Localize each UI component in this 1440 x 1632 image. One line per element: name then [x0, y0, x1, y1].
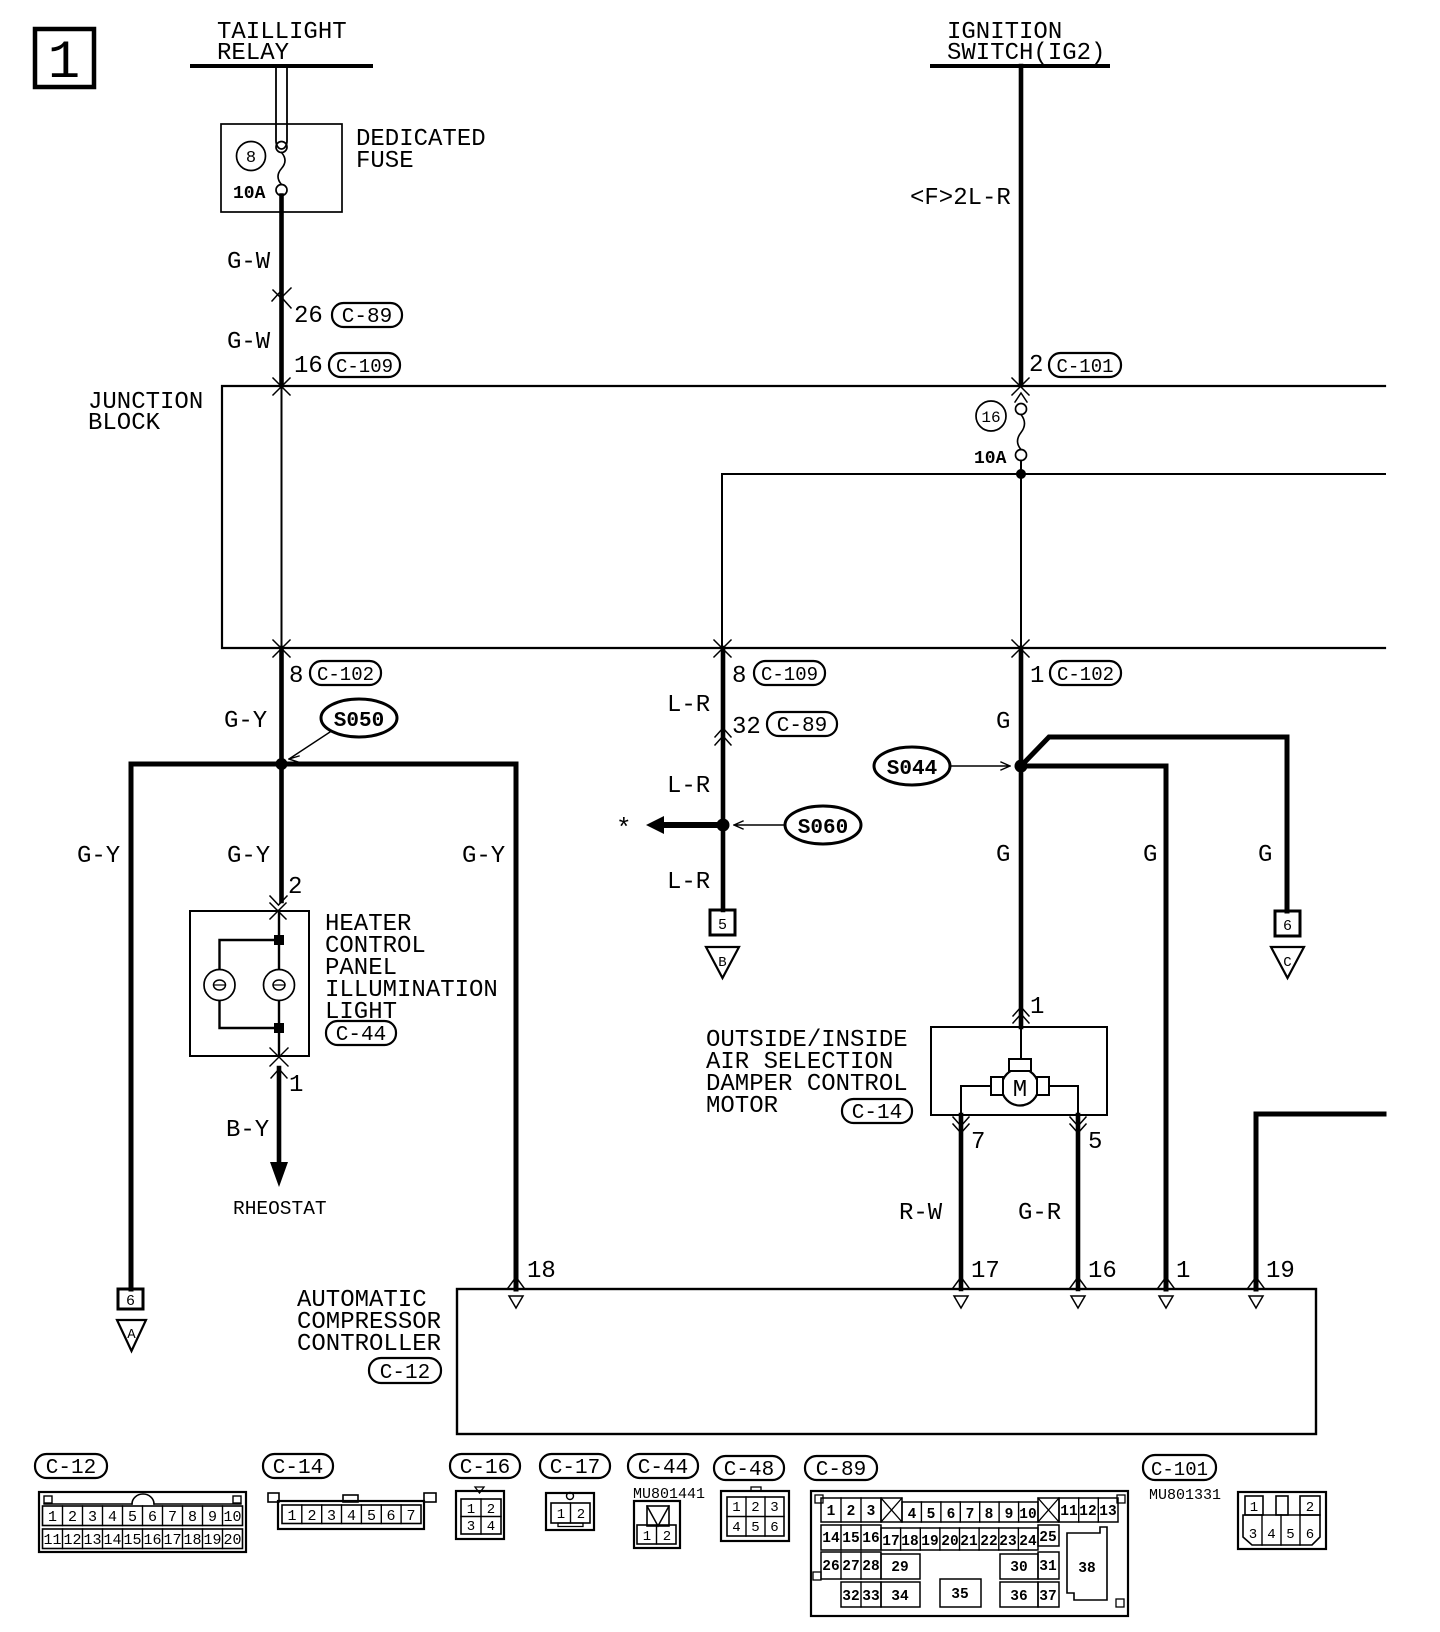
wire G: branch down to damper motor: [1019, 766, 1024, 1027]
svg-text:L-R: L-R: [667, 692, 710, 719]
capsule label C-48: [714, 1456, 784, 1480]
internal wire heater panel: [278, 911, 280, 1056]
svg-text:C-89: C-89: [342, 306, 392, 329]
svg-text:C-89: C-89: [816, 1459, 866, 1482]
crossing mark motor pin 5: [1070, 1117, 1086, 1133]
svg-text:4: 4: [732, 1520, 740, 1536]
svg-text:C: C: [1283, 955, 1291, 971]
svg-text:4: 4: [487, 1519, 495, 1535]
svg-text:22: 22: [980, 1534, 997, 1550]
svg-text:2: 2: [1306, 1500, 1314, 1516]
svg-text:CONTROLLER: CONTROLLER: [297, 1331, 441, 1358]
svg-text:17: 17: [163, 1532, 181, 1549]
svg-text:C-109: C-109: [761, 664, 818, 686]
svg-text:23: 23: [999, 1534, 1016, 1550]
wire: thick stub arrow to asterisk: [663, 822, 723, 828]
svg-text:4: 4: [347, 1508, 356, 1525]
terminal box 6 (branch C): [1275, 911, 1300, 936]
svg-text:2: 2: [307, 1508, 316, 1525]
svg-text:19: 19: [1266, 1258, 1295, 1285]
svg-text:G-Y: G-Y: [224, 708, 267, 735]
taillight relay bus bar: [192, 64, 371, 68]
svg-text:G-Y: G-Y: [462, 843, 505, 870]
capsule C-101 (top): [1049, 353, 1121, 377]
crossing mark into heater panel pin 2: [270, 896, 287, 919]
splice S060 oval: [785, 806, 861, 844]
controller entry mark pin 1: [1158, 1277, 1174, 1288]
leader arrow S050 to node: [289, 732, 330, 762]
svg-text:C-17: C-17: [550, 1457, 600, 1480]
svg-text:33: 33: [862, 1589, 879, 1605]
svg-text:25: 25: [1039, 1530, 1056, 1546]
svg-text:G-R: G-R: [1018, 1200, 1061, 1227]
node S050 junction dot: [276, 758, 288, 770]
svg-text:6: 6: [770, 1520, 778, 1536]
connector crossing 32 C-89: [715, 728, 731, 745]
connector C-17 drawing: [546, 1493, 594, 1530]
arrowhead to rheostat: [270, 1162, 288, 1187]
svg-text:1: 1: [287, 1508, 296, 1525]
connector C-89 cell 38: [1067, 1527, 1107, 1600]
node: bulb bracket bottom: [274, 1023, 284, 1033]
svg-text:S050: S050: [334, 710, 384, 733]
svg-text:MOTOR: MOTOR: [706, 1093, 778, 1120]
wire L-R: S060 to terminal 5: [721, 825, 726, 910]
svg-text:M: M: [1013, 1077, 1027, 1104]
crossing mark motor pin 7: [953, 1117, 969, 1133]
svg-text:16: 16: [294, 353, 323, 380]
svg-text:C-101: C-101: [1056, 356, 1113, 378]
svg-text:17: 17: [971, 1258, 1000, 1285]
junction block internal bus from fuse 16: [722, 474, 1385, 648]
wire G-Y: junction block to node S050: [279, 648, 284, 764]
svg-text:29: 29: [891, 1560, 908, 1576]
svg-text:2: 2: [68, 1509, 77, 1526]
junction block internal wire (left, G-W feed): [281, 386, 283, 648]
svg-text:31: 31: [1039, 1559, 1057, 1575]
svg-text:2: 2: [663, 1529, 671, 1545]
fuse 16 number circle: [976, 401, 1006, 431]
node: bulb bracket top: [274, 935, 284, 945]
wire G-Y right branch down: [514, 764, 519, 1289]
splice S044 oval: [874, 747, 950, 785]
svg-text:2: 2: [487, 1502, 495, 1518]
svg-text:7: 7: [966, 1507, 975, 1523]
svg-text:28: 28: [862, 1559, 879, 1575]
svg-text:C-48: C-48: [724, 1459, 774, 1482]
wire B-Y to rheostat: [277, 1068, 282, 1165]
svg-text:3: 3: [770, 1500, 778, 1516]
svg-text:S044: S044: [887, 758, 937, 781]
capsule label C-12 (connector row): [35, 1454, 107, 1478]
svg-text:B-Y: B-Y: [226, 1117, 269, 1144]
capsule label C-16: [450, 1454, 520, 1478]
svg-text:36: 36: [1010, 1589, 1027, 1605]
connector C-101 drawing: [1238, 1492, 1326, 1549]
svg-text:C-14: C-14: [273, 1457, 323, 1480]
svg-text:SWITCH(IG2): SWITCH(IG2): [947, 40, 1105, 67]
svg-text:2: 2: [577, 1507, 585, 1523]
svg-text:C-102: C-102: [1057, 664, 1114, 686]
controller entry mark pin 17: [953, 1277, 969, 1288]
svg-text:34: 34: [891, 1589, 909, 1605]
motor wire to pin 5: [1049, 1086, 1078, 1115]
svg-text:C-16: C-16: [460, 1457, 510, 1480]
svg-text:26: 26: [294, 303, 323, 330]
svg-text:1: 1: [643, 1529, 651, 1545]
crossing mark out of heater panel pin 1: [270, 1048, 288, 1078]
svg-text:1: 1: [827, 1504, 836, 1520]
ignition switch bus bar: [932, 64, 1108, 68]
svg-text:1: 1: [1250, 1500, 1258, 1516]
wire G-Y left branch down: [129, 764, 134, 1289]
controller entry mark pin 18: [508, 1277, 524, 1288]
svg-text:13: 13: [83, 1532, 101, 1549]
controller entry mark pin 19: [1248, 1277, 1264, 1288]
svg-text:5: 5: [718, 917, 727, 934]
svg-text:L-R: L-R: [667, 869, 710, 896]
svg-text:11: 11: [1060, 1504, 1078, 1520]
ground triangle C: [1271, 947, 1304, 978]
svg-text:FUSE: FUSE: [356, 148, 414, 175]
wire G-W: fuse to junction block: [279, 196, 284, 386]
svg-text:17: 17: [882, 1534, 899, 1550]
svg-text:6: 6: [1306, 1527, 1314, 1543]
svg-text:6: 6: [386, 1508, 395, 1525]
svg-text:G-Y: G-Y: [77, 843, 120, 870]
svg-text:5: 5: [1088, 1129, 1102, 1156]
fuse 16 element: [1016, 404, 1027, 415]
bulb 1 (left): [204, 970, 235, 1001]
ground triangle A: [117, 1320, 146, 1351]
svg-text:1: 1: [48, 1509, 57, 1526]
splice S050 oval: [321, 699, 397, 737]
crossing mark at junction block top (right wire): [1012, 378, 1029, 395]
svg-text:18: 18: [901, 1534, 918, 1550]
svg-text:19: 19: [203, 1532, 221, 1549]
connector C-16 drawing: [456, 1491, 504, 1539]
svg-text:9: 9: [1005, 1507, 1014, 1523]
connector C-89 pin grid row 4: [841, 1582, 881, 1607]
svg-text:16: 16: [143, 1532, 161, 1549]
svg-text:1: 1: [557, 1507, 565, 1523]
wire: G-Y distribution bus: [131, 762, 516, 767]
svg-text:*: *: [616, 814, 632, 844]
svg-text:10A: 10A: [974, 449, 1007, 469]
svg-text:G: G: [1143, 842, 1157, 869]
svg-text:16: 16: [1088, 1258, 1117, 1285]
svg-text:16: 16: [981, 409, 1000, 427]
svg-text:B: B: [718, 955, 726, 971]
svg-text:7: 7: [971, 1129, 985, 1156]
svg-text:14: 14: [103, 1532, 121, 1549]
svg-text:L-R: L-R: [667, 773, 710, 800]
svg-text:10A: 10A: [233, 184, 266, 204]
svg-text:8: 8: [732, 663, 746, 690]
svg-text:6: 6: [947, 1507, 956, 1523]
svg-text:3: 3: [327, 1508, 336, 1525]
svg-text:5: 5: [927, 1507, 936, 1523]
svg-text:8: 8: [289, 663, 303, 690]
capsule C-89 (middle): [767, 712, 837, 736]
connector C-12 drawing: [39, 1492, 246, 1552]
svg-text:G-W: G-W: [227, 249, 271, 276]
crossing mark into motor pin 1: [1013, 1007, 1029, 1023]
connector C-48 drawing: [721, 1491, 789, 1541]
svg-text:G-Y: G-Y: [227, 843, 270, 870]
svg-text:1: 1: [1176, 1258, 1190, 1285]
svg-text:8: 8: [246, 149, 256, 168]
svg-text:G: G: [996, 709, 1010, 736]
svg-text:C-102: C-102: [317, 664, 374, 686]
svg-text:C-14: C-14: [852, 1102, 902, 1125]
svg-text:1: 1: [1030, 994, 1044, 1021]
motor M symbol: [1020, 1027, 1022, 1060]
ground triangle B: [706, 947, 739, 978]
connector C-89 pin numbers: [822, 1504, 1116, 1605]
leader arrow S044 to node: [950, 762, 1010, 770]
svg-text:C-89: C-89: [777, 715, 827, 738]
capsule label C-17: [540, 1454, 610, 1478]
damper control motor box: [931, 1027, 1107, 1115]
wire 2L-R: ignition switch to junction block: [1019, 66, 1024, 385]
capsule label C-89 (connector row): [805, 1456, 877, 1480]
capsule C-102 (left): [310, 661, 381, 685]
svg-text:8: 8: [985, 1507, 994, 1523]
svg-text:21: 21: [960, 1534, 978, 1550]
svg-text:9: 9: [208, 1509, 217, 1526]
svg-text:BLOCK: BLOCK: [88, 410, 161, 437]
svg-text:6: 6: [148, 1509, 157, 1526]
svg-text:24: 24: [1019, 1534, 1037, 1550]
controller entry mark pin 16: [1070, 1277, 1086, 1288]
bulb 2 (right): [264, 970, 295, 1001]
wire R-W: motor to controller 17: [959, 1115, 964, 1289]
node: fuse 16 output on internal bus: [1016, 469, 1026, 479]
terminal box 6 (branch A): [118, 1289, 143, 1309]
svg-text:C-44: C-44: [336, 1024, 386, 1047]
svg-text:12: 12: [1079, 1504, 1096, 1520]
connector C-44 drawing: [634, 1501, 680, 1548]
svg-text:18: 18: [527, 1258, 556, 1285]
node S060 junction dot: [717, 819, 730, 832]
svg-text:11: 11: [43, 1532, 61, 1549]
svg-text:MU801331: MU801331: [1149, 1487, 1221, 1504]
svg-text:C-101: C-101: [1151, 1459, 1208, 1481]
leader arrow S060 to node: [734, 821, 785, 829]
crossing mark at junction block bottom (right wire): [1012, 640, 1029, 657]
svg-text:10: 10: [1019, 1507, 1036, 1523]
svg-text:15: 15: [842, 1531, 859, 1547]
svg-text:C-44: C-44: [638, 1457, 688, 1480]
svg-text:20: 20: [941, 1534, 958, 1550]
wire: far-right feed to controller 19: [1256, 1114, 1384, 1289]
svg-text:4: 4: [908, 1507, 917, 1523]
connector crossing mark 26 C-89: [272, 288, 291, 308]
capsule C-109 (bottom): [754, 661, 825, 685]
svg-text:4: 4: [108, 1509, 117, 1526]
svg-text:6: 6: [126, 1293, 135, 1310]
fuse element (dedicated fuse): [276, 142, 287, 153]
capsule C-12 (component): [369, 1358, 441, 1383]
capsule label C-14 (connector row): [263, 1454, 333, 1478]
svg-text:C-109: C-109: [336, 356, 393, 378]
connector C-89 pin grid row 1: [821, 1498, 881, 1522]
svg-text:35: 35: [951, 1587, 968, 1603]
svg-text:15: 15: [123, 1532, 141, 1549]
motor wire to pin 7: [961, 1086, 991, 1115]
svg-text:20: 20: [223, 1532, 241, 1549]
capsule label C-101 (connector row): [1143, 1455, 1216, 1480]
wire G-Y middle branch down: [279, 764, 284, 901]
wire G: branch to controller pin 1: [1021, 766, 1166, 1289]
svg-text:12: 12: [63, 1532, 81, 1549]
svg-text:C-12: C-12: [380, 1362, 430, 1385]
svg-text:2: 2: [847, 1504, 856, 1520]
node S044 junction dot: [1015, 760, 1028, 773]
wire G-R: motor to controller 16: [1076, 1115, 1081, 1289]
svg-text:7: 7: [168, 1509, 177, 1526]
bulb parallel bracket: [220, 940, 280, 1028]
svg-text:<F>2L-R: <F>2L-R: [910, 185, 1011, 212]
svg-text:37: 37: [1039, 1589, 1056, 1605]
svg-text:C-12: C-12: [46, 1457, 96, 1480]
connector C-89 pin grid row 2: [821, 1525, 881, 1550]
svg-text:10: 10: [223, 1509, 241, 1526]
svg-text:7: 7: [406, 1508, 415, 1525]
capsule C-109 (top): [329, 353, 400, 377]
svg-text:30: 30: [1010, 1560, 1027, 1576]
heater control panel illumination light box: [190, 911, 309, 1056]
capsule C-14 (component): [842, 1099, 912, 1123]
svg-text:R-W: R-W: [899, 1200, 943, 1227]
svg-text:27: 27: [842, 1559, 859, 1575]
connector C-14 drawing: [278, 1501, 424, 1529]
svg-text:5: 5: [751, 1520, 759, 1536]
automatic compressor controller box: [457, 1289, 1316, 1434]
wire L-R: junction block down to S060: [721, 648, 726, 825]
svg-text:1: 1: [732, 1500, 740, 1516]
svg-text:2: 2: [1029, 352, 1043, 379]
svg-text:16: 16: [862, 1531, 879, 1547]
svg-text:RELAY: RELAY: [217, 40, 289, 67]
svg-text:3: 3: [88, 1509, 97, 1526]
svg-text:3: 3: [867, 1504, 876, 1520]
terminal box 5 (branch B): [710, 910, 735, 935]
capsule C-102 (right): [1050, 661, 1121, 685]
fuse 16 arrow into terminal: [1015, 393, 1027, 402]
svg-text:13: 13: [1099, 1504, 1116, 1520]
svg-text:26: 26: [822, 1559, 839, 1575]
wire: taillight relay to dedicated fuse (double line): [276, 68, 287, 149]
connector C-89 pin grid row 3: [821, 1552, 881, 1579]
svg-text:1: 1: [289, 1072, 303, 1099]
capsule C-89 (top): [332, 303, 402, 327]
svg-text:RHEOSTAT: RHEOSTAT: [233, 1198, 327, 1220]
capsule C-44 (component): [326, 1021, 396, 1045]
svg-text:1: 1: [1030, 663, 1044, 690]
svg-text:8: 8: [188, 1509, 197, 1526]
junction block outline: [222, 386, 1385, 648]
connector C-89 outer shell: [811, 1491, 1128, 1616]
svg-text:5: 5: [128, 1509, 137, 1526]
svg-text:19: 19: [921, 1534, 938, 1550]
svg-text:32: 32: [842, 1589, 859, 1605]
dedicated fuse box: [221, 124, 342, 212]
svg-text:S060: S060: [798, 817, 848, 840]
sheet number box 1: [35, 29, 94, 87]
fuse number circle 8: [237, 142, 266, 171]
svg-text:18: 18: [183, 1532, 201, 1549]
svg-text:3: 3: [467, 1519, 475, 1535]
svg-text:G-W: G-W: [227, 329, 271, 356]
crossing mark at junction block top (left wire): [273, 378, 290, 395]
svg-text:32: 32: [732, 714, 761, 741]
svg-text:3: 3: [1249, 1527, 1257, 1543]
capsule label C-44: [628, 1454, 698, 1478]
svg-text:5: 5: [1286, 1527, 1294, 1543]
svg-text:G: G: [1258, 842, 1272, 869]
wire G: branch to far-right ground C: [1021, 737, 1287, 911]
svg-text:G: G: [996, 842, 1010, 869]
svg-text:5: 5: [367, 1508, 376, 1525]
junction block internal wire (right, to C-102 pin 1): [1020, 461, 1022, 649]
svg-text:6: 6: [1283, 918, 1292, 935]
svg-text:14: 14: [822, 1531, 840, 1547]
crossing mark at junction block bottom (middle wire): [714, 640, 731, 657]
svg-text:1: 1: [467, 1502, 475, 1518]
svg-text:1: 1: [48, 33, 80, 94]
wire G: junction block down to S044: [1019, 648, 1024, 766]
crossing mark at junction block bottom (left wire): [273, 640, 290, 657]
svg-text:38: 38: [1078, 1561, 1095, 1577]
svg-text:2: 2: [288, 874, 302, 901]
svg-text:A: A: [127, 1327, 136, 1343]
svg-text:2: 2: [751, 1500, 759, 1516]
svg-text:4: 4: [1267, 1527, 1275, 1543]
